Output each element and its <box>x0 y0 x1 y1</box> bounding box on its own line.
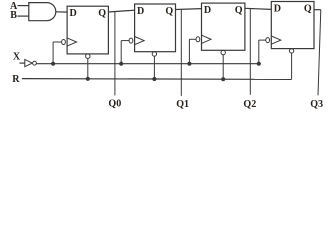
svg-text:Q: Q <box>98 8 106 19</box>
wire clock stub to FF4 <box>259 39 266 41</box>
svg-text:B: B <box>10 10 17 21</box>
wire reset riser to FF4 (corner) <box>291 53 293 79</box>
D flip-flop FF3 body <box>202 3 245 50</box>
wire A to AND gate <box>18 5 30 7</box>
wire reset riser to FF1 <box>87 58 89 78</box>
node Q1 tap / wire Q1 drop <box>180 9 182 96</box>
FF4 clock edge-trigger triangle <box>271 36 281 44</box>
FF1 reset bubble <box>86 54 90 58</box>
wire B to AND gate <box>18 15 30 17</box>
svg-text:Q3: Q3 <box>310 99 323 110</box>
junction dot clock/FF3 <box>187 62 191 66</box>
junction dot clock/FF4 <box>257 62 261 66</box>
FF1 clock inversion bubble <box>62 40 66 45</box>
wire reset riser to FF2 <box>153 56 155 79</box>
wire FF2 Q to FF3 D <box>176 8 202 11</box>
svg-text:X: X <box>13 52 21 63</box>
junction dot R/FF3 <box>221 77 225 81</box>
node Q2 tap / wire Q2 drop <box>249 9 251 95</box>
AND gate G1 <box>29 3 56 21</box>
node Q0 tap / wire Q0 drop <box>114 12 116 96</box>
FF3 clock edge-trigger triangle <box>202 35 212 43</box>
wire clock riser to FF4 <box>258 40 260 64</box>
wire FF4 Q output <box>314 9 321 11</box>
FF2 clock edge-trigger triangle <box>135 37 145 45</box>
FF2 clock inversion bubble <box>129 38 133 43</box>
svg-text:D: D <box>204 5 211 16</box>
wire clock riser to FF2 <box>120 41 122 64</box>
wire FF1 Q to FF2 D <box>108 10 134 12</box>
FF3 clock inversion bubble <box>196 37 200 42</box>
svg-text:Q1: Q1 <box>176 99 189 110</box>
inverter U5 (clock buffer) <box>25 59 32 66</box>
svg-text:Q: Q <box>165 6 173 17</box>
wire clock stub to FF1 <box>53 41 61 43</box>
wire clock riser to FF1 <box>52 42 54 64</box>
wire reset line R <box>22 78 292 81</box>
D flip-flop FF4 body <box>271 2 314 49</box>
wire Q3 drop <box>318 10 321 96</box>
svg-text:Q2: Q2 <box>243 99 256 110</box>
junction dot R/FF1 <box>86 77 90 81</box>
wire FF3 Q to FF4 D <box>245 8 271 9</box>
FF1 clock edge-trigger triangle <box>67 38 77 46</box>
wire clock stub to FF3 <box>189 38 196 40</box>
wire AND output to FF1 D input <box>56 11 68 13</box>
junction dot clock/FF1 <box>51 62 55 66</box>
junction dot R/FF2 <box>152 77 156 81</box>
svg-text:D: D <box>70 8 77 19</box>
svg-text:Q: Q <box>304 4 312 15</box>
junction dot clock/FF2 <box>119 62 123 66</box>
wire X to inverter <box>20 62 26 64</box>
wire clock riser to FF3 <box>188 39 190 63</box>
FF4 reset bubble <box>289 49 293 53</box>
wire clock line <box>37 63 259 65</box>
wire reset riser to FF3 <box>222 55 224 79</box>
D flip-flop FF2 body <box>135 4 176 52</box>
FF4 clock inversion bubble <box>266 38 270 43</box>
wire clock stub to FF2 <box>121 40 129 42</box>
svg-text:R: R <box>12 74 20 85</box>
FF3 reset bubble <box>221 50 225 54</box>
svg-text:D: D <box>137 6 144 17</box>
svg-text:Q: Q <box>235 5 243 16</box>
svg-text:Q0: Q0 <box>108 98 121 109</box>
D flip-flop FF1 body <box>67 6 108 54</box>
svg-text:D: D <box>274 4 281 15</box>
FF2 reset bubble <box>152 52 156 56</box>
